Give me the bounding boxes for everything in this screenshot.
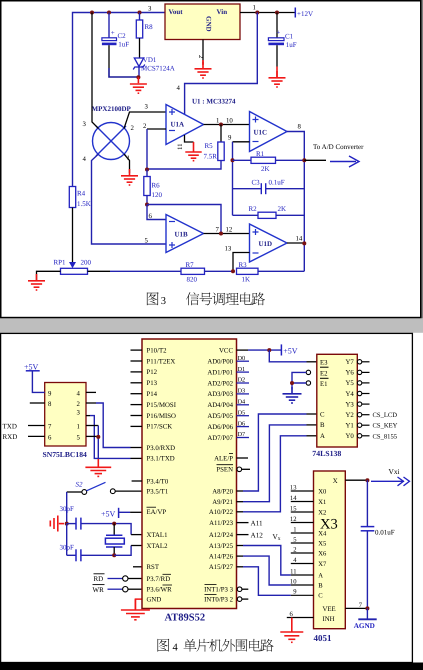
- svg-text:AD4/P04: AD4/P04: [207, 402, 233, 409]
- svg-text:R4: R4: [77, 190, 86, 198]
- svg-text:P15/MOSI: P15/MOSI: [147, 402, 177, 409]
- op-amp U1A: [166, 105, 204, 145]
- ground RP1 left: [28, 274, 45, 290]
- node VEE junction: [365, 606, 369, 610]
- power +5V to EA/VP: [101, 508, 142, 519]
- wire bottom rail to R7: [110, 270, 181, 272]
- wire pin 3 to P3.1/TXD: [86, 416, 142, 459]
- svg-text:AD2/P02: AD2/P02: [207, 380, 233, 387]
- svg-text:11: 11: [177, 143, 184, 150]
- svg-text:1: 1: [253, 5, 256, 12]
- wire top +5V rail: [73, 13, 166, 187]
- wire +12V branch to U1 power pin 4: [185, 13, 258, 115]
- svg-text:+5V: +5V: [101, 509, 116, 518]
- svg-text:E3: E3: [320, 359, 328, 366]
- svg-text:Y6: Y6: [345, 370, 354, 377]
- svg-text:P11/T2EX: P11/T2EX: [147, 358, 176, 365]
- svg-text:Vout: Vout: [169, 8, 184, 16]
- wire RP1 right to R7: [88, 270, 111, 272]
- svg-text:P3.4/T0: P3.4/T0: [147, 478, 169, 485]
- power +12V: [295, 8, 313, 19]
- wire A12 stub and net label: [237, 534, 249, 536]
- wire U1A power pin 11: [185, 135, 194, 142]
- svg-text:9: 9: [48, 390, 52, 397]
- svg-text:TXD: TXD: [3, 422, 17, 430]
- wire A8/P20 to C: [237, 490, 244, 492]
- svg-text:4: 4: [77, 390, 81, 397]
- svg-text:AD5/P05: AD5/P05: [207, 413, 233, 420]
- wire U1C inverting node vertical: [232, 142, 234, 216]
- svg-text:C: C: [320, 411, 325, 418]
- svg-text:R6: R6: [152, 182, 161, 190]
- svg-text:X4: X4: [318, 530, 327, 537]
- wire VCC to +5V: [237, 349, 249, 351]
- svg-text:AD7/P07: AD7/P07: [207, 435, 233, 442]
- svg-text:R7: R7: [186, 261, 195, 269]
- AT89S52 right pin names: [204, 347, 233, 603]
- wire pin 4 stub: [86, 391, 96, 393]
- resistor R3: [237, 261, 305, 284]
- node Vin-C1 branch: [255, 11, 259, 15]
- wire U1C output: [287, 132, 304, 272]
- svg-text:AT89S52: AT89S52: [165, 613, 206, 624]
- svg-text:Vin: Vin: [217, 8, 228, 16]
- resistor R2: [233, 205, 305, 218]
- ground below SN75LBC184: [85, 459, 111, 476]
- ground below VD1: [130, 77, 147, 93]
- wire R4 to RP1 wiper: [72, 208, 74, 264]
- resistor R1: [233, 150, 305, 173]
- AT89S52 left pin names: [147, 347, 177, 603]
- svg-text:D4: D4: [238, 399, 246, 406]
- svg-text:P14: P14: [147, 391, 158, 398]
- sensor MPX2100DP: [92, 105, 132, 160]
- node pin5 ground junction: [96, 435, 100, 439]
- svg-text:MCS7124A: MCS7124A: [141, 65, 175, 73]
- svg-text:Y7: Y7: [345, 359, 354, 366]
- svg-text:1uF: 1uF: [118, 41, 129, 49]
- wire INT1 stub with bubble: [237, 587, 248, 592]
- svg-text:1: 1: [216, 118, 219, 125]
- svg-text:9: 9: [228, 135, 232, 142]
- svg-text:3: 3: [77, 410, 81, 417]
- zener diode VD1 MCS7124A: [133, 56, 175, 77]
- svg-text:B: B: [320, 422, 325, 429]
- node X output junction: [365, 478, 369, 482]
- svg-text:RP1: RP1: [54, 259, 67, 267]
- svg-text:P3.5/T1: P3.5/T1: [147, 488, 169, 495]
- svg-text:SN75LBC184: SN75LBC184: [43, 450, 88, 459]
- svg-text:8: 8: [48, 401, 52, 408]
- svg-text:D2: D2: [238, 377, 246, 384]
- wire sensor pin1 to ground: [124, 154, 130, 173]
- resistor R5: [204, 125, 225, 161]
- node U1A output junction: [219, 123, 223, 127]
- svg-text:D0: D0: [238, 355, 246, 362]
- capacitor C30pF bottom: [60, 524, 115, 562]
- svg-text:WR: WR: [93, 586, 105, 594]
- svg-text:2: 2: [143, 123, 147, 130]
- node oscillator rail left junction: [65, 522, 69, 526]
- svg-text:1.5K: 1.5K: [77, 200, 91, 208]
- capacitor C2: [102, 13, 129, 69]
- svg-text:XTAL1: XTAL1: [147, 532, 168, 539]
- wire U1C inverting input: [233, 141, 250, 143]
- svg-text:AD3/P03: AD3/P03: [207, 391, 233, 398]
- svg-text:3: 3: [161, 296, 166, 307]
- svg-text:11: 11: [290, 568, 296, 575]
- svg-text:A12/P24: A12/P24: [209, 532, 234, 539]
- svg-text:X2: X2: [318, 509, 326, 516]
- svg-text:VEE: VEE: [323, 606, 336, 613]
- capacitor C5 0.01uF: [361, 480, 395, 608]
- caption figure 4 title: [157, 639, 273, 654]
- svg-text:A11/P23: A11/P23: [209, 520, 234, 527]
- wire E2 E1 enables to ground: [292, 370, 311, 389]
- wire PSEN stub with bubble: [237, 467, 250, 472]
- svg-text:6: 6: [48, 434, 52, 441]
- svg-text:U1C: U1C: [254, 129, 268, 137]
- svg-text:30pF: 30pF: [60, 505, 75, 513]
- node rail-C2 junction: [107, 11, 111, 15]
- voltage regulator U2: [165, 4, 240, 40]
- 74LS138 pin names Y7-Y0: [345, 359, 354, 440]
- svg-text:P3.6/WR: P3.6/WR: [147, 587, 173, 594]
- svg-text:Y0: Y0: [345, 433, 354, 440]
- svg-text:10: 10: [290, 578, 297, 585]
- svg-text:15: 15: [290, 505, 297, 512]
- svg-text:R1: R1: [256, 150, 265, 158]
- svg-text:12: 12: [290, 516, 297, 523]
- svg-text:E1: E1: [320, 381, 328, 388]
- svg-text:A11: A11: [251, 520, 264, 528]
- svg-text:Vxi: Vxi: [389, 467, 400, 476]
- svg-text:X: X: [333, 478, 338, 485]
- node E1 E2 junction: [290, 381, 294, 385]
- svg-text:P17/SCK: P17/SCK: [147, 424, 173, 431]
- svg-text:X5: X5: [318, 540, 327, 547]
- svg-text:4051: 4051: [314, 633, 333, 643]
- crystal Y1: [105, 524, 124, 556]
- power +5V at VCC: [281, 344, 297, 355]
- svg-text:P16/MISO: P16/MISO: [147, 413, 177, 420]
- svg-text:P13: P13: [147, 380, 158, 387]
- svg-text:13: 13: [225, 246, 232, 253]
- svg-text:X1: X1: [318, 499, 326, 506]
- ground left of crystal: [50, 516, 64, 532]
- svg-text:Y4: Y4: [345, 391, 354, 398]
- wire GND pin to ground: [135, 599, 142, 609]
- node C1 top junction: [275, 11, 279, 15]
- wire P1 port stubs: [131, 350, 143, 481]
- svg-text:5: 5: [77, 434, 81, 441]
- svg-text:GND: GND: [147, 596, 162, 603]
- label WR with overbar: [93, 585, 105, 594]
- 4051 pin names VEE INH: [323, 606, 336, 623]
- svg-text:10: 10: [226, 118, 233, 125]
- svg-text:+: +: [111, 29, 115, 37]
- wire A13/P25 to 4051 A: [237, 545, 244, 547]
- svg-text:INT0/P3 2: INT0/P3 2: [204, 596, 233, 603]
- output arrow To A/D: [330, 156, 359, 167]
- ground below sensor: [121, 169, 138, 185]
- svg-text:ALE/P: ALE/P: [214, 455, 233, 462]
- resistor R6: [144, 170, 163, 205]
- op-amp U1C: [250, 112, 288, 152]
- resistor R7: [181, 261, 233, 284]
- arrow Vxi output: [371, 477, 410, 486]
- svg-text:RD: RD: [94, 575, 104, 583]
- svg-text:200: 200: [81, 259, 92, 267]
- svg-text:C2: C2: [118, 32, 127, 40]
- svg-text:A12: A12: [251, 532, 264, 540]
- svg-text:2: 2: [131, 125, 135, 132]
- node rail-R8 junction: [138, 11, 142, 15]
- node C2/VD1 ground junction: [136, 75, 140, 79]
- svg-text:B: B: [318, 582, 323, 589]
- wire X output to Vxi: [345, 479, 367, 481]
- ground below GND pin: [121, 599, 150, 620]
- svg-text:U1B: U1B: [175, 231, 189, 239]
- svg-text:Y3: Y3: [345, 401, 354, 408]
- switch S2: [76, 481, 116, 495]
- svg-text:CS_LCD: CS_LCD: [373, 412, 398, 419]
- wire pin 1 and pin 5 to ground: [86, 426, 98, 462]
- svg-text:EA/VP: EA/VP: [147, 509, 167, 516]
- svg-text:C3: C3: [252, 179, 261, 187]
- wire C2 to ground node: [109, 68, 138, 77]
- svg-text:+12V: +12V: [297, 10, 313, 18]
- svg-text:1K: 1K: [242, 276, 251, 284]
- wire A14/P26 to 4051 B: [237, 555, 244, 557]
- svg-text:INH: INH: [323, 616, 335, 623]
- svg-text:+5V: +5V: [283, 346, 298, 355]
- svg-text:INT1/P3 3: INT1/P3 3: [204, 587, 233, 594]
- wire INH to ground: [287, 617, 314, 619]
- wire sensor pin3 to rail: [92, 13, 99, 129]
- wire sensor pin2 to U1A non-inverting input: [124, 112, 166, 129]
- wire A11 stub and net label: [237, 522, 249, 524]
- wire U1D inverting input: [233, 253, 250, 272]
- svg-text:U1 : MC33274: U1 : MC33274: [192, 98, 236, 106]
- svg-text:P10/T2: P10/T2: [147, 347, 168, 354]
- svg-text:+: +: [276, 29, 280, 37]
- svg-text:U1D: U1D: [259, 240, 273, 248]
- svg-text:A: A: [318, 572, 323, 579]
- wire RST stub: [133, 566, 142, 568]
- capacitor C30pF top: [60, 505, 115, 530]
- resistor R8: [136, 13, 153, 58]
- svg-text:D3: D3: [238, 388, 246, 395]
- wire S2 left to oscillator ground rail: [67, 491, 82, 493]
- svg-text:AGND: AGND: [354, 622, 375, 630]
- wire U1A inverting input: [147, 128, 166, 130]
- capacitor C1: [268, 13, 296, 67]
- svg-text:1: 1: [77, 424, 80, 431]
- svg-text:XTAL2: XTAL2: [147, 543, 169, 550]
- svg-text:C1: C1: [285, 33, 294, 41]
- wire regulator Vin to +12V: [240, 12, 295, 14]
- svg-text:7: 7: [48, 424, 52, 431]
- svg-text:A10/P22: A10/P22: [209, 509, 234, 516]
- svg-text:R5: R5: [205, 142, 214, 150]
- regulator GND pin wire: [202, 40, 204, 65]
- node R6 bottom junction: [145, 203, 149, 207]
- node rail-sensor junction: [90, 11, 94, 15]
- svg-text:P3.7/RD: P3.7/RD: [147, 576, 171, 583]
- svg-text:Y2: Y2: [345, 412, 354, 419]
- svg-text:R3: R3: [239, 261, 248, 269]
- node VCC junction: [267, 348, 271, 352]
- wire sensor pin4 to U1B non-inverting input: [92, 154, 167, 244]
- svg-text:6: 6: [149, 213, 153, 220]
- svg-text:2K: 2K: [278, 205, 287, 213]
- ground U1A pin 11: [185, 142, 201, 161]
- svg-text:A9/P21: A9/P21: [212, 499, 233, 506]
- svg-text:820: 820: [187, 276, 198, 284]
- wire INT0 stub with bubble: [237, 597, 248, 602]
- node R1 left junction: [231, 158, 235, 162]
- 74LS138 output bubbles and stubs: [357, 360, 369, 364]
- potentiometer RP1: [54, 259, 92, 275]
- svg-text:4: 4: [173, 643, 179, 654]
- svg-text:A15/P27: A15/P27: [209, 564, 234, 571]
- wire VEE pin 7: [345, 607, 367, 609]
- svg-text:To A/D Converter: To A/D Converter: [313, 143, 364, 151]
- svg-text:x: x: [278, 536, 281, 542]
- svg-text:X0: X0: [318, 488, 327, 495]
- wire ALE stub: [237, 457, 249, 459]
- svg-text:13: 13: [290, 484, 297, 491]
- svg-text:C: C: [318, 593, 323, 600]
- svg-text:7.5R: 7.5R: [204, 153, 218, 161]
- power +5V to pin 9: [24, 362, 45, 392]
- wire U1B feedback loop: [147, 205, 221, 234]
- svg-text:E2: E2: [320, 370, 328, 377]
- ground below regulator: [195, 60, 212, 78]
- wire output node to arrow: [304, 159, 326, 161]
- svg-text:D6: D6: [238, 420, 246, 427]
- svg-text:2: 2: [77, 401, 81, 408]
- svg-text:AD0/P00: AD0/P00: [207, 359, 233, 366]
- wire A9/P21 to B: [237, 501, 244, 503]
- label RD with overbar: [94, 574, 105, 583]
- svg-text:S2: S2: [76, 481, 84, 489]
- node crystal bottom junction: [112, 553, 116, 557]
- svg-text:X6: X6: [318, 550, 327, 557]
- svg-text:U1A: U1A: [171, 121, 185, 129]
- svg-text:4: 4: [83, 156, 87, 163]
- node crystal top junction: [112, 522, 116, 526]
- svg-text:0.1uF: 0.1uF: [269, 179, 285, 187]
- svg-text:AD1/P01: AD1/P01: [207, 369, 233, 376]
- svg-text:A8/P20: A8/P20: [212, 488, 233, 495]
- svg-text:GND: GND: [205, 16, 213, 32]
- svg-text:CS_8155: CS_8155: [373, 433, 398, 440]
- 74LS138 pin names E3 E2 E1 C B A: [320, 359, 329, 440]
- wire R5 bottom to R6 top: [147, 161, 221, 170]
- svg-text:1: 1: [293, 526, 296, 533]
- svg-text:CS_KEY: CS_KEY: [373, 423, 398, 430]
- svg-text:+5V: +5V: [24, 362, 39, 371]
- resistor R4: [69, 187, 91, 209]
- svg-text:X7: X7: [318, 561, 327, 568]
- svg-text:VCC: VCC: [219, 347, 233, 354]
- wire +5V to E3 of 74LS138: [269, 350, 306, 362]
- svg-text:4: 4: [177, 85, 181, 92]
- node R1 right junction: [302, 158, 306, 162]
- node R3 left junction: [231, 269, 235, 273]
- svg-text:2K: 2K: [261, 165, 270, 173]
- svg-text:R8: R8: [145, 23, 154, 31]
- 4051 left pins with numbers: [290, 484, 327, 599]
- wire U1A output to U1C: [204, 124, 250, 126]
- wire A15/P27 to 4051 C: [237, 566, 244, 568]
- node R6 top junction: [145, 168, 149, 172]
- svg-text:Y1: Y1: [345, 423, 353, 430]
- svg-text:A: A: [320, 433, 325, 440]
- op-amp U1D: [250, 224, 288, 262]
- svg-text:R2: R2: [249, 205, 258, 213]
- wire TXD to pin 7: [28, 425, 45, 427]
- wire A10/P22 to A: [237, 511, 244, 513]
- ground below INH: [280, 618, 303, 643]
- net labels D0-D7 data bus stubs: [237, 355, 250, 438]
- wire R6 bottom to U1B inverting input: [147, 205, 166, 220]
- svg-text:3: 3: [83, 121, 87, 128]
- svg-text:A13/P25: A13/P25: [209, 543, 234, 550]
- wire pin 8 stub: [30, 402, 45, 404]
- svg-text:P12: P12: [147, 369, 158, 376]
- svg-text:PSEN: PSEN: [216, 467, 233, 474]
- wire RP1 left to ground: [37, 271, 61, 280]
- svg-text:3: 3: [148, 6, 152, 13]
- IC U3 SN75LBC184: [43, 383, 88, 460]
- wire WR to P3.6 with bubble: [108, 587, 143, 592]
- svg-text:RXD: RXD: [3, 433, 18, 441]
- svg-text:P3.0/RXD: P3.0/RXD: [147, 445, 176, 452]
- svg-text:D5: D5: [238, 409, 246, 416]
- svg-text:14: 14: [290, 495, 297, 502]
- svg-text:MPX2100DP: MPX2100DP: [92, 105, 132, 113]
- MCU U1 AT89S52: [142, 339, 237, 624]
- analog mux X3 4051: [314, 471, 346, 643]
- wire rail to XTAL1: [114, 524, 142, 535]
- node U1B output junction: [219, 232, 223, 236]
- svg-text:D7: D7: [238, 431, 246, 438]
- svg-text:7: 7: [216, 227, 220, 234]
- svg-text:3: 3: [145, 104, 149, 111]
- svg-text:120: 120: [152, 191, 163, 199]
- node U1D output junction: [302, 241, 306, 245]
- ground 74LS138 enables: [283, 387, 302, 403]
- svg-text:0.01uF: 0.01uF: [375, 528, 395, 536]
- wire RXD to pin 6: [28, 435, 45, 437]
- wire S2 to P3.5/T1: [115, 490, 142, 492]
- svg-text:74LS138: 74LS138: [312, 449, 341, 458]
- ground AGND: [354, 608, 377, 629]
- wire pin 2 to P3.0/RXD: [86, 403, 142, 448]
- svg-text:RST: RST: [147, 564, 160, 571]
- svg-text:5: 5: [145, 238, 149, 245]
- svg-text:D1: D1: [238, 366, 246, 373]
- svg-text:2: 2: [293, 546, 296, 553]
- svg-text:P3.1/TXD: P3.1/TXD: [147, 456, 175, 463]
- wire RD to P3.7 with bubble: [108, 576, 143, 581]
- svg-text:VD1: VD1: [143, 56, 157, 64]
- svg-text:8: 8: [298, 124, 302, 131]
- svg-text:AD6/P06: AD6/P06: [207, 424, 233, 431]
